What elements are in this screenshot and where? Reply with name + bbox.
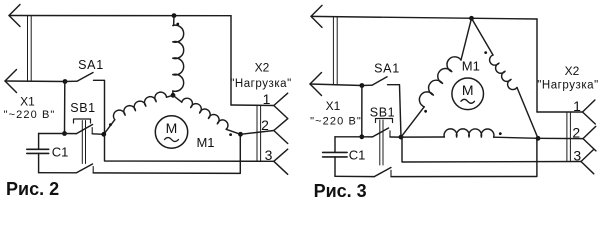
wire delta left vertex down and right to X2 pin 3 (fig3) <box>402 137 581 162</box>
star point junction <box>171 93 176 98</box>
motor M1 circle symbol <box>155 116 187 148</box>
wire SA1 input down to C1/SB1 node <box>64 82 66 134</box>
polarity dot right winding (fig3) <box>484 51 487 54</box>
SB1 plunger rod line 2 (fig3) <box>382 120 384 165</box>
wire SB1 lower pole right and riser to delta right vertex <box>391 138 537 176</box>
right winding lead to X2 pin2 node <box>226 129 240 134</box>
SB1 upper pole right wire to star vertex <box>92 133 104 136</box>
SA1 right contact wire down to star left vertex <box>94 80 105 134</box>
C1 bottom lead (fig3) <box>334 157 336 176</box>
C1 top lead <box>38 134 40 150</box>
SB1 button cap <box>74 119 91 123</box>
connector X1 body line 2 <box>30 16 32 82</box>
motor winding top (star) <box>173 25 184 91</box>
svg-text:C1: C1 <box>52 144 69 159</box>
svg-text:SB1: SB1 <box>70 101 95 115</box>
svg-text:"Нагрузка": "Нагрузка" <box>537 79 599 91</box>
svg-text:M1: M1 <box>196 135 214 150</box>
wire X2 pin 1 (fig3) <box>537 111 583 113</box>
connector X1 body line 1 <box>27 16 29 82</box>
delta left side lead lower <box>401 107 424 137</box>
wire star vertex down and right to X2 pin 3 <box>105 134 274 161</box>
motor winding right (star) <box>182 98 228 129</box>
wire SB1 node to C1 top lead (fig3) <box>335 136 362 138</box>
SB1 upper pole right wire to vertex (fig3) <box>390 136 401 138</box>
capacitor C1 top plate <box>27 148 49 150</box>
X2 pin 2 socket arrow <box>274 119 288 144</box>
junction right winding / X2 pin2 / riser <box>238 132 243 137</box>
wire C1 bottom to SB1 lower pole (fig3) <box>335 175 374 177</box>
capacitor C1 bottom plate <box>27 152 49 154</box>
connector X1 pin 2 (socket arrow) <box>5 70 17 93</box>
SB1 lower pole blade (fig3) <box>374 168 391 177</box>
svg-text:3: 3 <box>573 148 581 164</box>
wire SB1 node to C1 top lead <box>39 133 65 135</box>
connector X2 right body line 2 <box>569 112 571 162</box>
SB1 upper pole left wire <box>65 133 77 135</box>
wire C1 bottom to SB1 lower pole <box>39 172 77 174</box>
junction delta left vertex <box>399 135 404 140</box>
SA1 left contact wire <box>65 80 77 82</box>
delta bottom lead right <box>494 137 538 138</box>
junction delta right vertex <box>536 136 541 141</box>
wire X1-1 to top-right corner <box>9 15 231 17</box>
polarity dot top winding <box>176 23 179 26</box>
svg-text:X2: X2 <box>255 61 270 75</box>
SB1 upper pole fixed contact tick <box>91 128 93 134</box>
right winding lead from star point <box>173 95 182 102</box>
C1 top lead (fig3) <box>334 137 336 153</box>
delta left side lead upper <box>461 18 472 60</box>
SB1 upper pole blade (fig3) <box>373 128 389 137</box>
wire SB1 lower pole to riser up to X2 pin2 node <box>93 134 240 173</box>
motor winding right side (delta) <box>490 55 517 90</box>
C1 bottom lead <box>38 153 40 172</box>
junction C1 top / SB1 upper contact <box>62 131 67 136</box>
svg-text:2: 2 <box>572 125 580 141</box>
SB1 plunger rod line 2 <box>85 121 87 164</box>
connector X2 body line 2 <box>260 105 262 161</box>
X2 pin 1 socket arrow <box>274 93 288 118</box>
wire X1-2 to SA1 <box>5 80 65 83</box>
wire X1-1 right to top corner (fig3) <box>311 16 537 19</box>
svg-text:X1: X1 <box>20 95 35 109</box>
polarity dot right winding <box>229 133 232 136</box>
SB1 plunger rod line 1 (fig3) <box>379 120 381 165</box>
motor winding left (star) <box>113 92 166 120</box>
delta right side lead upper <box>472 18 494 55</box>
SB1 upper pole blade <box>77 125 93 134</box>
connector X1 pin 1 (socket arrow) <box>9 5 20 27</box>
svg-text:"~220 В": "~220 В" <box>4 109 56 121</box>
junction delta apex on top wire <box>469 16 474 21</box>
svg-text:X2: X2 <box>565 64 580 78</box>
X2 pin 1 socket arrow (fig3) <box>583 100 596 124</box>
svg-text:М: М <box>462 82 474 98</box>
connector X1 right body line 1 <box>332 17 334 85</box>
wire top-right corner down to X2 pin1 <box>230 16 232 105</box>
SB1 upper pole fixed contact tick (fig3) <box>389 131 391 137</box>
switch SA1 blade (fig3) <box>372 77 387 85</box>
X2 pin 3 socket arrow <box>274 149 288 174</box>
connector X1 pin 2 right (socket arrow) <box>310 73 322 96</box>
svg-text:3: 3 <box>265 147 273 163</box>
svg-text:2: 2 <box>261 117 269 133</box>
junction top wire / top winding <box>172 13 177 18</box>
junction SA1 input / C1 branch (fig3) <box>360 83 365 88</box>
SA1 right contact down to delta left vertex <box>388 85 402 137</box>
svg-text:"Нагрузка": "Нагрузка" <box>230 78 292 90</box>
svg-text:M1: M1 <box>462 58 480 73</box>
X2 pin 3 socket arrow (fig3) <box>581 150 594 174</box>
svg-text:Рис. 2: Рис. 2 <box>6 179 59 199</box>
svg-text:"~220 В": "~220 В" <box>310 115 362 127</box>
polarity dot left winding (fig3) <box>424 110 427 113</box>
motor M1 circle symbol (fig3) <box>452 78 484 110</box>
SB1 lower pole fixed contact tick <box>92 167 94 173</box>
svg-text:SA1: SA1 <box>374 62 400 76</box>
delta right side lead lower <box>517 88 538 139</box>
motor winding left side (delta) <box>419 57 461 107</box>
left winding lead from star point <box>167 95 174 97</box>
motor tilde <box>165 138 179 142</box>
capacitor C1 bottom plate (fig3) <box>323 156 348 158</box>
top winding lead to star point <box>172 91 174 95</box>
junction star left vertex <box>101 132 106 137</box>
SB1 upper pole left wire (fig3) <box>362 136 373 138</box>
wire SA1 input down to C1/SB1 node (fig3) <box>361 86 363 137</box>
wire X1-2 to SA1 (fig3) <box>310 84 362 86</box>
svg-text:C1: C1 <box>349 148 366 163</box>
junction SA1 input / C1 branch <box>63 79 68 84</box>
junction C1 top / SB1 upper contact (fig3) <box>359 134 364 139</box>
svg-text:1: 1 <box>573 98 581 114</box>
wire X2 pin 1 <box>231 104 274 107</box>
polarity dot bottom winding (fig3) <box>499 132 502 135</box>
connector X2 body line 1 <box>256 105 258 161</box>
left winding lead to vertex <box>104 120 115 135</box>
connector X1 pin 1 right (socket arrow) <box>311 5 322 27</box>
svg-text:SB1: SB1 <box>370 106 395 120</box>
svg-text:X1: X1 <box>326 99 341 113</box>
motor winding bottom (delta) <box>444 129 494 137</box>
polarity dot left winding <box>109 123 112 126</box>
svg-text:Рис. 3: Рис. 3 <box>314 181 367 201</box>
SB1 plunger rod line 1 <box>81 121 83 164</box>
connector X1 right body line 2 <box>336 17 338 85</box>
switch SA1 blade <box>77 73 93 82</box>
top winding lead from top wire <box>173 16 175 26</box>
svg-text:М: М <box>166 120 178 136</box>
SA1 left contact wire (fig3) <box>362 84 372 86</box>
svg-text:1: 1 <box>263 91 271 107</box>
motor tilde (fig3) <box>461 99 475 103</box>
wire top corner down to X2 pin1 (fig3) <box>536 19 538 112</box>
svg-text:SA1: SA1 <box>78 58 104 72</box>
capacitor C1 top plate (fig3) <box>323 151 348 153</box>
SB1 button cap (fig3) <box>376 119 393 123</box>
SB1 lower pole blade <box>77 164 93 173</box>
delta bottom lead left <box>401 136 444 138</box>
connector X2 right body line 1 <box>566 112 568 162</box>
wire X2 pin 2 (fig3) <box>538 137 583 139</box>
X2 pin 2 socket arrow (fig3) <box>583 126 596 150</box>
SB1 lower pole fixed contact tick (fig3) <box>390 170 392 176</box>
wire X2 pin 2 <box>241 131 274 135</box>
